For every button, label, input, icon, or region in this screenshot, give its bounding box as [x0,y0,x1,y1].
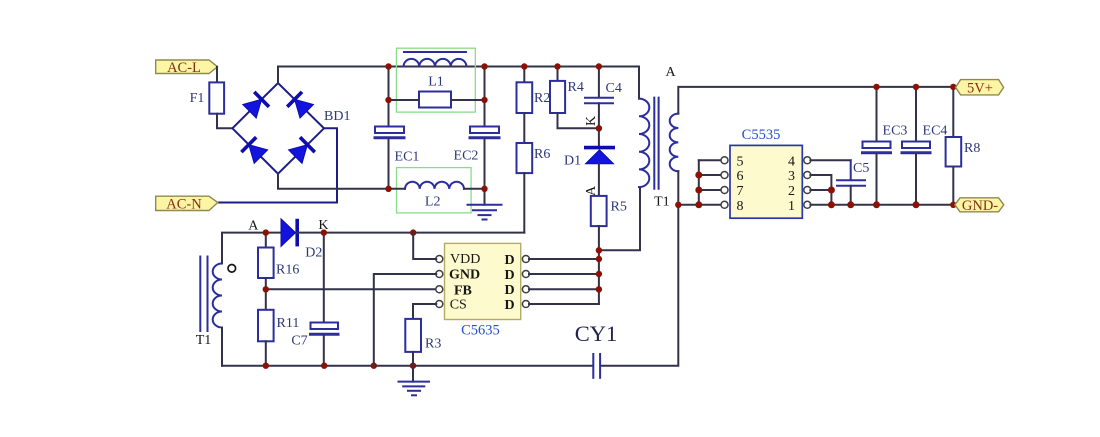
svg-text:5: 5 [737,154,744,169]
port AC-L [156,60,218,76]
wire FB line [266,288,436,290]
svg-text:A: A [248,219,259,234]
wire D pin 2 [529,273,599,275]
svg-text:D: D [504,253,514,268]
wire aux top [222,233,281,264]
svg-text:F1: F1 [190,91,205,106]
inductor L1 winding body [419,92,451,108]
wire secondary top to 5V rail [678,87,953,114]
wire GND pin to rail [374,274,436,366]
resistor R11 [265,289,267,310]
svg-text:3: 3 [788,169,795,184]
fuse F1 [209,82,224,113]
svg-text:5V+: 5V+ [967,81,993,97]
wire pin 2 stub [810,189,831,191]
capacitor EC4 [915,87,917,142]
svg-text:1: 1 [788,199,795,214]
svg-text:4: 4 [788,154,795,169]
svg-text:CY1: CY1 [575,321,618,346]
wire R2 to R6 [523,113,525,143]
wire F1 to bridge left corner [217,114,232,129]
wire gnd rail pin1 to GND flag [810,204,953,206]
wire bottom gnd rail [222,365,593,367]
wire top rail [278,66,639,68]
svg-text:T1: T1 [196,333,212,348]
inductor L2 box [397,168,472,213]
wire pin2 node to gnd rail [830,190,832,205]
wire C5 to gnd rail [850,186,852,205]
svg-text:R5: R5 [611,200,627,215]
svg-text:D2: D2 [305,245,322,260]
wire K node down to C7 [323,233,325,323]
capacitor EC3 [876,87,878,142]
transformer T1 aux coil [213,264,222,328]
svg-text:EC3: EC3 [883,124,908,139]
svg-text:R4: R4 [568,80,584,95]
svg-text:GND-: GND- [962,198,998,214]
ground under R3 [412,366,414,382]
junction dots drain bus [596,247,602,292]
transformer T1 core [654,98,658,189]
svg-text:R11: R11 [277,316,300,331]
wire bridge right corner to AC-N [218,128,337,202]
port AC-N [156,196,218,212]
svg-text:8: 8 [737,199,744,214]
svg-text:L2: L2 [425,195,441,210]
svg-text:K: K [584,116,599,126]
wire gnd rail to pin 8 [678,204,721,206]
bridge diode bottom-left [241,137,267,163]
wire pin 4 to C5 [810,159,850,161]
wire L1 lower left [389,99,420,101]
bridge diode bottom-right [289,137,315,163]
port 5V+ [956,80,1004,97]
svg-text:C5: C5 [853,161,869,176]
transformer T1 secondary coil [670,114,679,172]
pin circles U1 left [436,256,443,308]
wire aux bottom [221,328,223,366]
diode D1 [584,148,615,164]
wire R6 down to K line [523,173,525,233]
capacitor C5 [837,180,865,186]
junction dots 5V rail [873,84,956,90]
wire pin 6 stub [699,174,722,176]
wire D pin 4 [529,303,599,305]
wire secondary bottom [677,171,679,205]
port GND- [955,198,1004,214]
resistor R5 [591,196,607,226]
wire D pin 3 [529,288,599,290]
svg-text:AC-N: AC-N [166,197,202,213]
wire K line to R6 [297,232,524,234]
svg-text:C5535: C5535 [742,127,781,143]
capacitor CY1 [593,354,600,378]
wire pin 5 stub [699,159,722,161]
svg-text:D: D [504,283,514,298]
pin circles U1 right [522,256,529,308]
wire top rail to primary [638,67,640,99]
wire L2 left stub [389,188,406,190]
resistor R6 [517,143,533,173]
svg-text:FB: FB [454,283,472,298]
wire R5 to drain node [598,226,600,250]
wire C4 to D1 [598,103,600,146]
svg-text:D1: D1 [564,154,581,169]
wire L1 lower right [451,99,485,101]
diode D2 [281,219,297,247]
inductor L1 coil [404,59,467,67]
svg-text:GND: GND [449,267,480,282]
bridge diode top-right [287,92,313,118]
capacitor C4 [598,67,600,98]
junction dots top rail [385,63,602,69]
wire secondary ground down to CY1 [601,205,679,366]
junction dots aux area [263,229,417,368]
resistor R8 [952,87,954,137]
svg-text:EC4: EC4 [923,124,948,139]
wire left vertical to EC1 [388,67,390,127]
svg-text:D: D [504,268,514,283]
wire drain bus [598,250,600,304]
svg-text:D: D [504,298,514,313]
svg-text:EC2: EC2 [454,149,479,164]
svg-text:L1: L1 [428,75,444,90]
svg-text:R3: R3 [425,337,441,352]
wire R4 to node K [558,113,599,128]
wire D pin 1 [529,258,599,260]
svg-text:2: 2 [788,184,795,199]
IC U1 C5635 body [445,243,521,319]
svg-text:C4: C4 [606,81,622,96]
svg-text:A: A [666,65,677,80]
ground under EC2 [468,205,502,220]
junction dots gnd rail [828,187,957,209]
pin circles U2 left [721,157,728,209]
inductor L1 box [396,48,475,112]
wire VDD branch [413,233,436,259]
svg-text:BD1: BD1 [324,109,350,124]
wire bridge bottom corner to L2 [278,174,389,189]
bridge diode top-left [243,92,269,118]
wire pin bus left of U2 [698,160,700,205]
wire D1 to R5 [598,164,600,196]
junction dots left bus [675,172,702,209]
svg-text:AC-L: AC-L [167,60,201,76]
resistor R4 [557,67,559,81]
capacitor C7 [311,323,339,335]
wire right vertical to EC2 [484,67,486,127]
junction dots dc- rail [385,186,487,192]
resistor R3 [405,319,421,352]
svg-text:VDD: VDD [450,252,480,267]
polarity mark O [228,265,236,273]
wire pin 3 jog down [810,175,831,190]
inductor L2 coil [405,182,464,189]
wire AC-L to F1 [216,67,218,83]
wire L2 right stub [464,188,485,190]
svg-text:T1: T1 [654,195,670,210]
junction dots second row [385,97,487,103]
wire drain node to primary [599,187,640,250]
wire bridge top corner to top rail [277,67,279,84]
bridge rectifier BD1 frame [232,83,324,174]
svg-text:R8: R8 [964,141,980,156]
wire EC2 to ground [484,140,486,205]
capacitor EC1 [375,127,404,138]
svg-text:A: A [584,185,599,196]
wire CS pin to R3 [413,304,436,319]
svg-text:6: 6 [737,169,744,184]
resistor R16 [265,233,267,248]
wire EC1 to bottom rail [388,140,390,189]
capacitor EC2 [470,127,499,138]
IC U2 C5535 body [730,145,802,218]
resistor R2 [523,67,525,83]
svg-text:R6: R6 [534,147,550,162]
svg-text:7: 7 [737,184,744,199]
svg-text:R2: R2 [534,91,550,106]
svg-text:EC1: EC1 [395,150,420,165]
transformer T1 aux core [200,257,207,332]
svg-text:R16: R16 [276,263,299,278]
node K junction [596,125,602,131]
transformer T1 primary coil [639,99,649,187]
svg-text:CS: CS [450,298,467,313]
pin circles U2 right [804,157,811,209]
inductor L1 core bar [404,51,466,53]
svg-text:C7: C7 [291,334,307,349]
wire pin 7 stub [699,189,722,191]
svg-text:C5635: C5635 [461,323,500,339]
